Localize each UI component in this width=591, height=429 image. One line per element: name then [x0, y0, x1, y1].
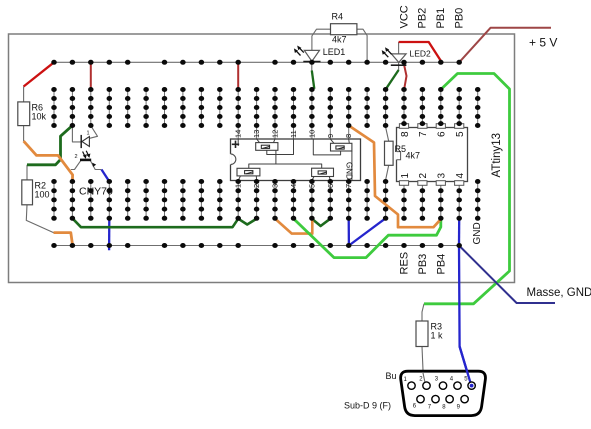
- svg-text:4: 4: [289, 184, 298, 188]
- svg-text:PB3: PB3: [417, 254, 429, 275]
- svg-text:6: 6: [437, 131, 448, 137]
- svg-text:CNY70: CNY70: [79, 186, 113, 198]
- svg-text:4k7: 4k7: [406, 151, 421, 161]
- svg-text:R5: R5: [395, 144, 407, 154]
- svg-text:12: 12: [271, 130, 280, 138]
- svg-text:1: 1: [400, 173, 411, 179]
- svg-text:RES: RES: [399, 252, 411, 275]
- svg-text:5: 5: [455, 131, 466, 137]
- svg-text:GND: GND: [345, 162, 354, 180]
- svg-text:VCC: VCC: [398, 5, 410, 28]
- svg-text:7: 7: [418, 131, 429, 137]
- svg-text:GND: GND: [472, 222, 483, 244]
- svg-text:PB1: PB1: [435, 8, 447, 29]
- svg-text:10: 10: [307, 130, 316, 138]
- svg-text:10k: 10k: [32, 112, 47, 122]
- svg-text:4k7: 4k7: [332, 35, 347, 45]
- svg-text:1: 1: [234, 184, 243, 188]
- svg-text:4: 4: [455, 173, 466, 179]
- svg-text:ATtiny13: ATtiny13: [491, 133, 503, 178]
- svg-text:PB0: PB0: [454, 8, 466, 29]
- svg-text:1 k: 1 k: [431, 331, 444, 341]
- svg-text:11: 11: [289, 130, 298, 138]
- svg-text:9: 9: [326, 134, 335, 138]
- svg-text:LED2: LED2: [410, 49, 432, 59]
- svg-text:100: 100: [35, 190, 50, 200]
- svg-text:3: 3: [271, 184, 280, 188]
- svg-text:Masse, GND: Masse, GND: [527, 287, 591, 299]
- svg-text:13: 13: [252, 130, 261, 138]
- svg-text:+ 5 V: + 5 V: [529, 36, 557, 50]
- svg-text:14: 14: [234, 130, 243, 138]
- svg-text:2: 2: [75, 154, 78, 160]
- svg-text:LED1: LED1: [323, 47, 346, 57]
- svg-text:5: 5: [307, 184, 316, 188]
- svg-text:3: 3: [437, 173, 448, 179]
- svg-text:1: 1: [87, 131, 90, 137]
- svg-text:6: 6: [326, 184, 335, 188]
- svg-text:R4: R4: [332, 12, 344, 22]
- svg-text:8: 8: [400, 131, 411, 137]
- svg-text:8: 8: [344, 134, 353, 138]
- svg-text:2: 2: [418, 173, 429, 179]
- svg-text:PB4: PB4: [435, 254, 447, 275]
- svg-text:PB2: PB2: [417, 8, 429, 29]
- svg-text:Sub-D 9 (F): Sub-D 9 (F): [344, 401, 391, 411]
- svg-text:Bu: Bu: [386, 371, 397, 381]
- svg-text:2: 2: [252, 184, 261, 188]
- svg-text:7: 7: [344, 184, 353, 188]
